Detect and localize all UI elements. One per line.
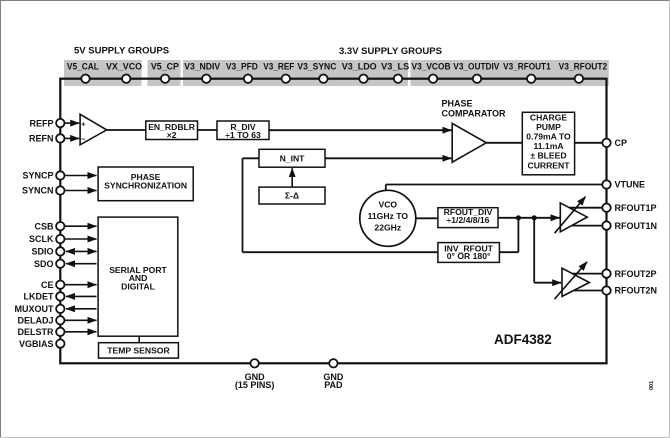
svg-text:SDO: SDO xyxy=(34,259,54,269)
svg-text:22GHz: 22GHz xyxy=(374,222,401,232)
svg-text:N_INT: N_INT xyxy=(280,153,306,163)
svg-text:001: 001 xyxy=(649,381,655,390)
svg-text:0.79mA TO: 0.79mA TO xyxy=(526,132,571,142)
svg-text:Σ-Δ: Σ-Δ xyxy=(285,191,299,201)
svg-text:CHARGE: CHARGE xyxy=(530,112,568,122)
svg-text:V3_VCOB: V3_VCOB xyxy=(412,62,451,72)
svg-text:RFOUT1P: RFOUT1P xyxy=(615,203,657,213)
svg-text:COMPARATOR: COMPARATOR xyxy=(442,109,506,119)
svg-text:−: − xyxy=(81,134,86,143)
svg-text:÷1 TO 63: ÷1 TO 63 xyxy=(225,130,261,140)
svg-text:V3_RFOUT2: V3_RFOUT2 xyxy=(559,62,608,72)
svg-text:SYNCP: SYNCP xyxy=(22,171,53,181)
svg-text:×2: ×2 xyxy=(167,130,177,140)
svg-text:SCLK: SCLK xyxy=(29,234,54,244)
svg-text:11.1mA: 11.1mA xyxy=(533,141,563,151)
svg-text:V3_LS: V3_LS xyxy=(381,62,409,72)
svg-text:SDIO: SDIO xyxy=(31,247,53,257)
svg-text:V3_SYNC: V3_SYNC xyxy=(297,62,336,72)
svg-text:DELSTR: DELSTR xyxy=(18,327,55,337)
svg-text:V3_RFOUT1: V3_RFOUT1 xyxy=(503,62,551,72)
svg-text:± BLEED: ± BLEED xyxy=(530,151,566,161)
svg-text:+: + xyxy=(81,120,86,129)
svg-text:0° OR 180°: 0° OR 180° xyxy=(447,251,491,261)
svg-text:ADF4382: ADF4382 xyxy=(494,332,552,347)
svg-text:(15 PINS): (15 PINS) xyxy=(235,380,275,390)
svg-text:MUXOUT: MUXOUT xyxy=(15,304,54,314)
svg-text:SYNCN: SYNCN xyxy=(22,186,54,196)
svg-text:5V SUPPLY GROUPS: 5V SUPPLY GROUPS xyxy=(74,46,169,57)
svg-text:REFN: REFN xyxy=(29,134,54,144)
svg-text:TEMP SENSOR: TEMP SENSOR xyxy=(107,346,170,356)
svg-text:RFOUT2P: RFOUT2P xyxy=(615,269,657,279)
svg-text:RFOUT2N: RFOUT2N xyxy=(615,286,658,296)
svg-text:LKDET: LKDET xyxy=(24,292,54,302)
svg-text:CURRENT: CURRENT xyxy=(527,160,570,170)
svg-text:REFP: REFP xyxy=(29,118,53,128)
svg-text:PAD: PAD xyxy=(324,380,343,390)
svg-text:VCO: VCO xyxy=(378,200,397,210)
svg-text:11GHz TO: 11GHz TO xyxy=(368,211,409,221)
svg-text:PHASE: PHASE xyxy=(442,98,473,108)
svg-text:VTUNE: VTUNE xyxy=(615,180,646,190)
svg-text:CE: CE xyxy=(41,280,54,290)
svg-text:3.3V SUPPLY GROUPS: 3.3V SUPPLY GROUPS xyxy=(339,46,442,57)
svg-text:VX_VCO: VX_VCO xyxy=(106,62,142,72)
svg-text:PUMP: PUMP xyxy=(536,122,561,132)
svg-text:SYNCHRONIZATION: SYNCHRONIZATION xyxy=(104,180,187,190)
svg-text:V3_NDIV: V3_NDIV xyxy=(184,62,220,72)
svg-text:V3_REF: V3_REF xyxy=(263,62,294,72)
svg-text:VGBIAS: VGBIAS xyxy=(19,339,54,349)
svg-text:V5_CP: V5_CP xyxy=(151,62,179,72)
svg-text:CSB: CSB xyxy=(34,221,54,231)
svg-text:CP: CP xyxy=(615,138,628,148)
svg-text:RFOUT1N: RFOUT1N xyxy=(615,221,658,231)
svg-text:DELADJ: DELADJ xyxy=(17,316,53,326)
svg-text:DIGITAL: DIGITAL xyxy=(121,282,155,292)
svg-text:÷1/2/4/8/16: ÷1/2/4/8/16 xyxy=(447,215,490,225)
svg-text:V3_PFD: V3_PFD xyxy=(226,62,258,72)
svg-text:V5_CAL: V5_CAL xyxy=(67,62,99,72)
svg-text:V3_LDO: V3_LDO xyxy=(342,62,377,72)
svg-text:V3_OUTDIV: V3_OUTDIV xyxy=(453,62,499,72)
